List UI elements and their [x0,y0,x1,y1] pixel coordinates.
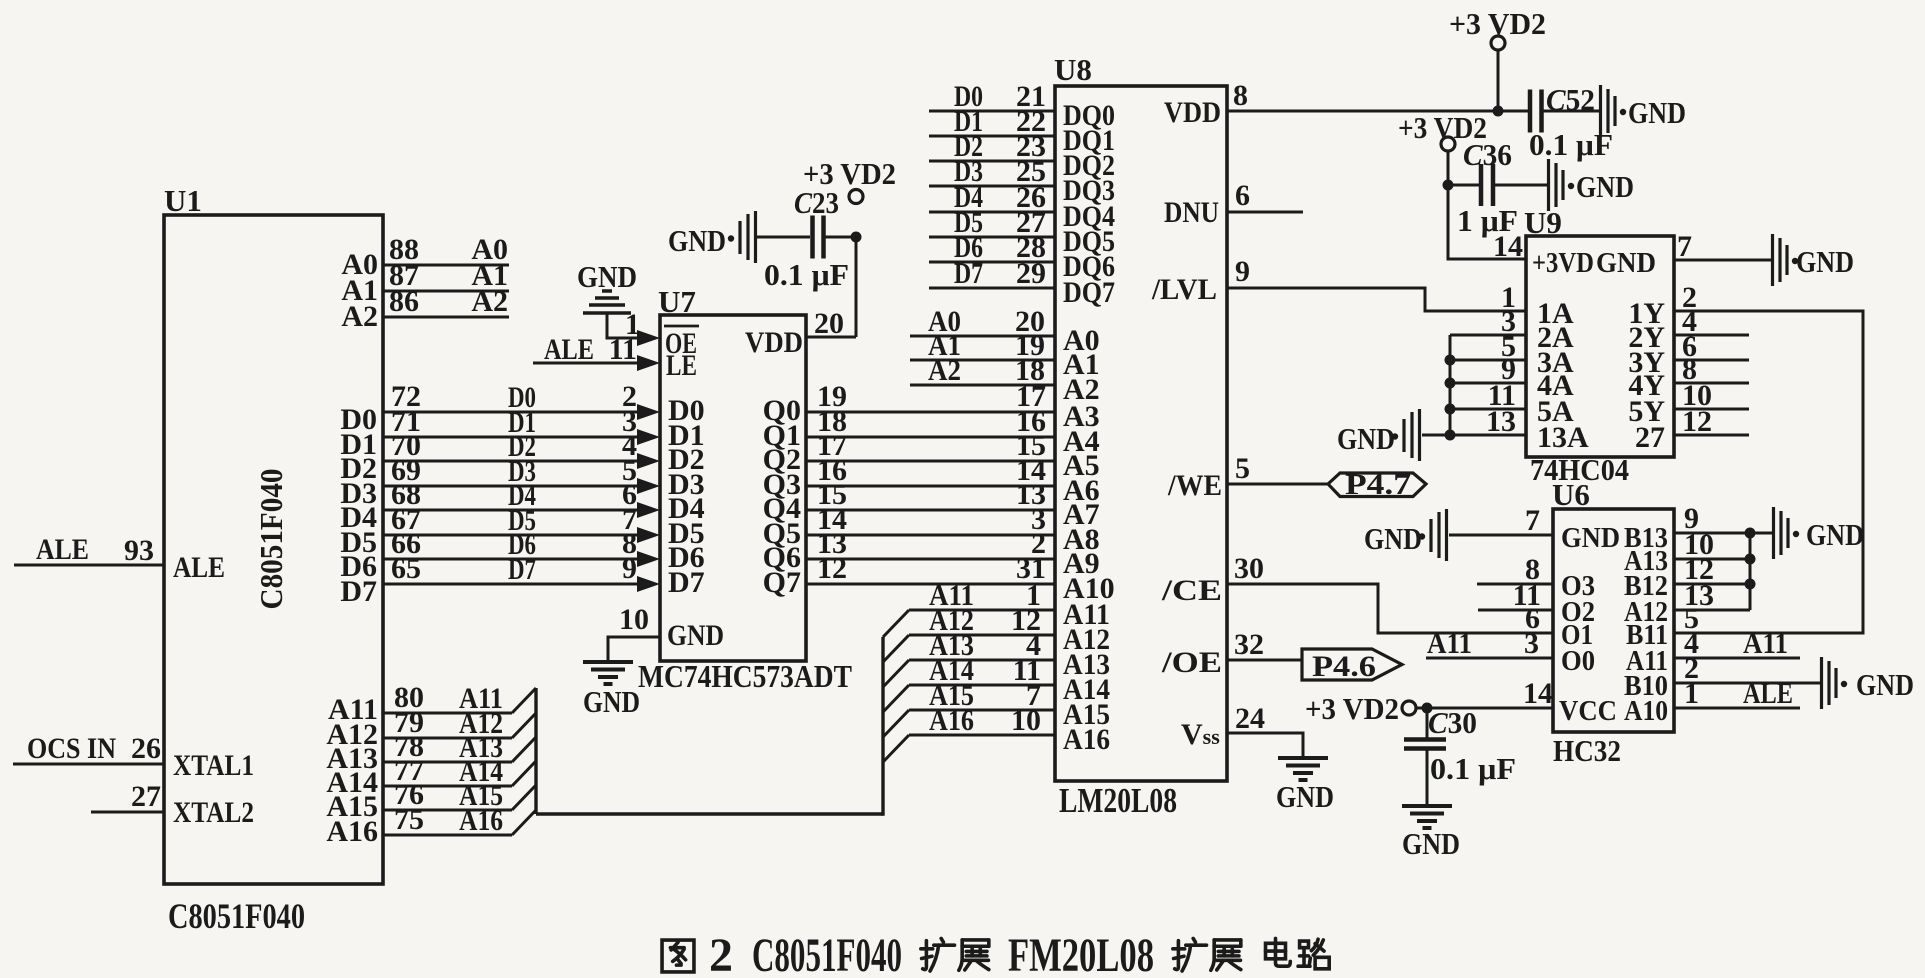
wire U7 Q7 pin 12 to U8 A10 pin 31 [763,552,1115,605]
wire net D2 to U8 DQ2 pin 23 [929,130,1115,182]
caption: figure 2 title [662,929,1329,978]
address bus vertical segment left [534,688,537,814]
svg-text:0.1 μF: 0.1 μF [1529,127,1613,162]
svg-text:GND: GND [1576,169,1634,204]
wire U9 4A pin 9 [1445,378,1527,389]
wire U9 3A pin 5 [1445,355,1527,366]
svg-text:DQ7: DQ7 [1063,276,1115,309]
svg-text:+3VD: +3VD [1532,247,1594,279]
U6 pin 13 A12 wire [1624,579,1750,628]
svg-text:/CE: /CE [1161,574,1222,607]
svg-text:14: 14 [1523,677,1553,710]
IC U7 MC74HC573ADT body [660,315,806,661]
svg-text:6: 6 [1235,179,1250,212]
wire U7 Q5 pin 14 to U8 A8 pin 3 [763,503,1100,556]
port tag P4.6 [1302,649,1402,683]
svg-text:U8: U8 [1054,52,1092,87]
U6 pin 14 VCC wire with +3 VD2 [1305,677,1617,727]
svg-text:32: 32 [1234,628,1264,661]
ground symbol GND (C52) [1599,85,1602,137]
svg-text:D7: D7 [340,575,377,608]
wire net D4 to U8 DQ4 pin 26 [929,181,1115,233]
svg-text:D7: D7 [668,566,705,599]
svg-text:/OE: /OE [1161,646,1222,679]
svg-text:18: 18 [1015,354,1045,387]
U1 pin XTAL1 / OCS IN (26) wire [13,732,254,782]
svg-text:10: 10 [1011,704,1041,737]
U7 inside label OE with overline [664,326,699,360]
wire C52 to ground [1543,110,1599,113]
U8 pin 6 DNU stub wire [1227,179,1303,212]
svg-text:GND: GND [1561,522,1620,554]
wire net A11: U1 pin 80 to address bus [328,681,536,726]
svg-text:ALE: ALE [544,333,594,366]
svg-text:30: 30 [1234,552,1264,585]
bus exit diagonal [883,660,909,687]
power terminal +3 VD2 (top) [1449,6,1546,117]
svg-text:Q7: Q7 [763,566,801,599]
wire U6 right tie vertical [1749,533,1752,610]
wire net D6 to U8 DQ6 pin 28 [929,231,1115,283]
junction dot [1443,180,1454,191]
wire U7 Q2 pin 17 to U8 A5 pin 15 [763,429,1100,482]
svg-text:75: 75 [394,803,424,836]
U8 pin 32 /OE wire to P4.6 [1227,628,1302,661]
U6 pin 10 A13 wire [1624,528,1756,577]
bus exit diagonal [883,710,909,737]
wire junction to C36 [1448,184,1479,187]
wire net D0 to U8 DQ0 pin 21 [929,80,1115,132]
svg-text:2: 2 [709,929,733,978]
svg-text:C23: C23 [794,185,839,220]
power terminal +3 VD2 [1441,137,1455,151]
svg-text:26: 26 [131,732,161,765]
svg-text:OCS IN: OCS IN [27,732,116,765]
wire net A1 to U8 A1 pin 19 [910,329,1100,381]
port tag P4.7 [1328,468,1426,501]
svg-text:29: 29 [1016,257,1046,290]
svg-text:27: 27 [1635,421,1665,454]
U6 pin 3 O0 wire / net A11 [1426,627,1595,677]
bus entry diagonal [512,688,536,713]
wire U7 Q4 pin 15 to U8 A7 pin 13 [763,478,1100,531]
power terminal +3 VD2 [849,190,863,204]
wire net A15: U1 pin 76 to address bus [326,778,536,823]
wire net A12: U1 pin 79 to address bus [326,706,536,751]
wire net ALE to U7 pin 11 LE [533,333,697,382]
svg-text:7: 7 [1677,230,1692,263]
wire net A16 bus to U8 A16 pin 10 [883,704,1110,762]
IC U9 74HC04 body [1526,236,1674,457]
wire ground to U7 pin 1 /OE [607,308,660,346]
svg-text:A11: A11 [1427,627,1472,660]
wire C23 to junction [825,236,856,239]
bus exit diagonal [883,610,909,637]
U6 pin 6 O1 label [1525,602,1593,651]
svg-text:24: 24 [1235,702,1265,735]
power terminal +3 VD2 (VCC) [1402,701,1416,715]
wire net A11 bus to U8 A11 pin 1 [883,579,1110,637]
capacitor C36 plates [1479,164,1484,206]
svg-text:GND: GND [667,619,724,652]
svg-text:+3 VD2: +3 VD2 [1305,691,1399,726]
bus entry diagonal [512,737,536,762]
U6 pin 11 O2 stub wire [1478,579,1595,628]
caption glyph: lu [1298,939,1329,969]
U7 pin 20 VDD wire [806,237,856,340]
caption glyph: tu [662,940,694,972]
svg-text:9: 9 [622,552,637,585]
IC U6 HC32 body [1553,509,1674,732]
svg-text:VCC: VCC [1559,695,1617,727]
U6 pin 7 GND wire [1364,504,1620,561]
svg-text:A2: A2 [1063,373,1100,406]
wire U9 5A pin 11 [1445,404,1527,415]
svg-text:86: 86 [389,285,419,318]
wire U9 13A pin 13 from ground [1337,409,1526,461]
svg-text:A10: A10 [1624,695,1668,727]
wire U9 4Y pin 8 stub [1674,382,1749,385]
wire U9 5Y pin 10 stub [1674,408,1749,411]
caption glyph: dian [1266,938,1291,966]
svg-text:VDD: VDD [745,326,803,359]
svg-text:8: 8 [1233,79,1248,112]
IC U1 C8051F040 body [164,215,383,884]
svg-text:/WE: /WE [1167,469,1222,502]
capacitor C23 with +3 VD2 and GND [668,156,896,292]
svg-text:A16: A16 [1063,723,1110,756]
U6 pin 4 A11 wire / net A11 [1626,627,1800,677]
capacitor C52 [1529,82,1686,162]
svg-text:MC74HC573ADT: MC74HC573ADT [638,658,852,694]
wire net A13: U1 pin 78 to address bus [326,730,536,775]
svg-text:A16: A16 [326,815,378,848]
svg-text:GND: GND [1337,421,1395,456]
wire net A2 to U8 A2 pin 18 [910,354,1100,406]
svg-text:XTAL1: XTAL1 [173,749,254,782]
U1 pin ALE (93) wire [14,533,225,584]
bus entry diagonal [512,810,536,835]
svg-text:C52: C52 [1546,82,1595,117]
ground symbol GND (Vss) [1276,758,1334,814]
svg-text:A2: A2 [471,285,508,318]
ground symbol GND (U6 B10) [1820,657,1823,709]
svg-text:C8051F040: C8051F040 [253,469,289,610]
svg-text:13A: 13A [1537,421,1589,454]
svg-text:LM20L08: LM20L08 [1059,781,1177,820]
svg-text:9: 9 [1235,255,1250,288]
wire net D7 to U8 DQ7 pin 29 [929,257,1115,309]
U1 pin XTAL2 (27) wire [91,780,254,829]
svg-text:14: 14 [1493,230,1523,263]
wire U7 Q6 pin 13 to U8 A9 pin 2 [763,527,1100,580]
svg-text:P4.7: P4.7 [1345,468,1411,501]
U6 pin 5 B11 label [1626,602,1699,651]
capacitor C30 plates (horizontal) [1404,737,1446,742]
bus entry diagonal [512,785,536,810]
wire net D2: U1 pin 70 to U7 pin 4 [340,429,660,485]
svg-text:XTAL2: XTAL2 [173,796,254,829]
wire C36 to ground [1495,184,1547,187]
junction dot [1493,106,1504,117]
wire U9 2A pin 3 [1450,334,1526,337]
svg-text:U6: U6 [1552,477,1590,512]
U6 pin 1 A10 wire / net ALE [1624,677,1800,727]
address bus vertical segment right [881,637,884,816]
svg-text:65: 65 [391,552,421,585]
caption glyph: zhan 2 [1211,940,1241,970]
svg-text:GND: GND [1402,826,1460,861]
wire net D1 to U8 DQ1 pin 22 [929,105,1115,157]
U8 pin 9 /LVL wire to U9 1A [1227,255,1526,311]
caption glyph: kuo [921,938,955,971]
capacitor C23 plates [810,216,815,259]
ground symbol GND (C36) [1547,159,1550,211]
svg-text:GND: GND [577,259,637,294]
svg-text:U9: U9 [1524,205,1562,240]
svg-text:D7: D7 [508,553,536,586]
U7 top ground symbol (GND) [577,259,637,313]
wire net D7: U1 pin 65 to U7 pin 9 [340,552,660,608]
svg-text:C8051F040: C8051F040 [168,896,305,936]
U1 pin A2 (86) wire / net A2 [341,285,509,333]
U7 pin 10 GND wire [608,603,724,662]
svg-text:ALE: ALE [36,533,89,566]
svg-text:1: 1 [1684,677,1699,710]
svg-text:A16: A16 [459,804,503,837]
caption glyph: kuo 2 [1173,938,1207,971]
wire net D3: U1 pin 69 to U7 pin 5 [340,454,660,510]
wire net D1: U1 pin 71 to U7 pin 3 [340,405,660,461]
svg-text:D7: D7 [954,257,983,290]
wire net D4: U1 pin 68 to U7 pin 6 [340,478,660,534]
wire U9 1Y pin 2 to U6 B11 pin 5 [1674,311,1863,633]
svg-text:GND: GND [583,684,640,719]
ground symbol GND (U6 B13) [1772,507,1775,559]
svg-text:7: 7 [1525,504,1540,537]
wire net A0 to U8 A0 pin 20 [910,305,1100,357]
svg-text:U7: U7 [658,284,696,319]
wire U7 Q1 pin 18 to U8 A4 pin 16 [763,405,1100,458]
U1 pin A1 (87) wire / net A1 [341,259,509,307]
svg-text:10: 10 [619,603,649,636]
svg-text:ALE: ALE [173,551,225,584]
svg-text:20: 20 [814,307,844,340]
capacitor C36 with +3 VD2 [1398,110,1634,238]
wire U9 2Y pin 4 stub [1674,334,1749,337]
svg-text:U1: U1 [164,183,202,218]
wire U9 input common vertical [1449,335,1452,435]
wire GND to C23 [756,236,810,239]
svg-text:0.1 μF: 0.1 μF [1430,751,1516,786]
address bus horizontal segment bottom [536,812,883,815]
svg-text:12: 12 [817,552,847,585]
svg-text:A2: A2 [928,354,961,387]
U1 pin A0 (88) wire / net A0 [341,233,509,281]
bus exit diagonal [883,735,909,762]
svg-text:93: 93 [124,534,154,567]
bus entry diagonal [512,761,536,786]
wire net D6: U1 pin 66 to U7 pin 8 [340,527,660,583]
svg-text:C8051F040: C8051F040 [752,929,902,978]
svg-text:0.1 μF: 0.1 μF [764,257,849,292]
svg-text:+3 VD2: +3 VD2 [1449,6,1546,41]
svg-text:5: 5 [1235,452,1250,485]
svg-text:GND: GND [1596,247,1656,279]
wire C30 to ground [1426,750,1429,806]
svg-text:GND: GND [1856,667,1914,702]
svg-text:A16: A16 [929,704,974,737]
svg-text:LE: LE [666,349,697,382]
wire net D0: U1 pin 72 to U7 pin 2 [340,380,660,436]
capacitor C30 to ground [1402,705,1516,861]
wire net D3 to U8 DQ3 pin 25 [929,155,1115,207]
svg-text:GND: GND [1806,517,1864,552]
U8 pin 5 /WE wire to P4.7 [1227,452,1328,485]
svg-text:11: 11 [609,333,637,366]
wire terminal to junction [1447,151,1450,185]
U6 pin 8 O3 stub wire [1477,553,1595,602]
wire net D5 to U8 DQ5 pin 27 [929,206,1115,258]
IC U8 LM20L08 body [1055,86,1227,781]
svg-text:GND: GND [1628,95,1686,130]
svg-text:VDD: VDD [1164,96,1221,129]
U9 pin 7 GND wire [1674,230,1854,286]
svg-text:O0: O0 [1561,645,1595,677]
wire +3 VD2 to U9 pin 14 [1448,185,1526,263]
U8 pin 24 Vss wire to ground [1227,702,1303,758]
wire U7 Q3 pin 16 to U8 A6 pin 14 [763,454,1100,507]
junction dot [851,232,862,243]
svg-text:FM20L08: FM20L08 [1008,929,1154,978]
svg-text:GND: GND [668,223,726,258]
svg-text:C36: C36 [1463,137,1512,172]
bus entry diagonal [512,713,536,738]
wire net A14: U1 pin 77 to address bus [326,754,536,799]
svg-text:27: 27 [131,780,161,813]
svg-text:C30: C30 [1428,705,1477,740]
caption glyph: zhan [959,940,989,970]
U6 pin 9 B13 wire to GND [1624,502,1864,559]
wire U9 3Y pin 6 stub [1674,359,1749,362]
wire net A15 bus to U8 A15 pin 7 [883,679,1110,737]
wire net A16: U1 pin 75 to address bus [326,803,536,848]
U6 pin 12 B12 wire [1624,553,1756,602]
svg-text:/LVL: /LVL [1151,273,1217,306]
bus exit diagonal [883,685,909,712]
U6 pin 2 B10 wire to GND [1624,652,1914,709]
svg-text:A2: A2 [341,300,378,333]
svg-text:GND: GND [1364,521,1422,556]
wire net A13 bus to U8 A13 pin 4 [883,629,1110,687]
svg-text:GND: GND [1276,779,1334,814]
U8 pin 30 /CE wire to U6 O1 pin 6 [1227,552,1553,633]
wire U9 pin 12 stub [1674,434,1749,437]
U8 pin 8 VDD wire to +3 VD2 / C52 [1227,79,1528,112]
ground symbol GND (C30) [1402,804,1452,808]
ground symbol GND (U9 pin7) [1771,234,1774,286]
svg-text:A11: A11 [1743,627,1788,660]
svg-text:HC32: HC32 [1553,733,1621,768]
junction dot [1422,703,1433,714]
bus exit diagonal [883,635,909,662]
wire net D5: U1 pin 67 to U7 pin 7 [340,503,660,559]
svg-text:ALE: ALE [1743,677,1793,710]
svg-text:GND: GND [1796,244,1854,279]
wire net A14 bus to U8 A14 pin 11 [883,654,1110,712]
svg-text:3: 3 [1524,627,1539,660]
U7 bottom ground symbol (GND) [583,662,640,719]
wire U7 Q0 pin 19 to U8 A3 pin 17 [763,380,1100,433]
wire net A12 bus to U8 A12 pin 12 [883,604,1110,662]
svg-text:P4.6: P4.6 [1312,650,1376,683]
svg-text:DNU: DNU [1164,196,1219,229]
